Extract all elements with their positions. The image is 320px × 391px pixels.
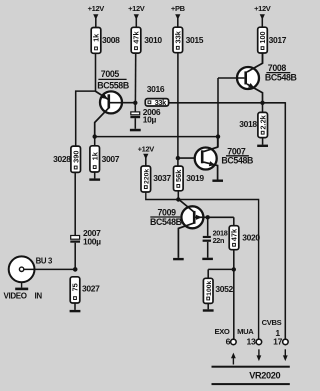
module VR2020 top line [212, 366, 290, 368]
svg-text:3010: 3010 [144, 35, 162, 45]
ground of 3018 [257, 138, 268, 147]
svg-text:220k: 220k [143, 169, 150, 184]
svg-text:+12V: +12V [138, 144, 155, 153]
svg-text:100k: 100k [206, 280, 213, 295]
svg-text:3037: 3037 [153, 173, 171, 183]
resistor 3020 (47k) [229, 226, 260, 250]
svg-text:BC548B: BC548B [221, 155, 253, 165]
ground of 7009 [173, 258, 184, 260]
svg-text:2.2k: 2.2k [258, 114, 267, 129]
wire node to 3052 [208, 269, 234, 278]
+12V supply for R3008 [88, 4, 105, 28]
svg-text:6: 6 [226, 337, 231, 347]
node 7008 emitter junction [260, 101, 264, 105]
ground of 7007 emitter [212, 180, 223, 182]
svg-text:33k: 33k [155, 98, 168, 107]
svg-text:10µ: 10µ [143, 115, 157, 125]
svg-text:BC558B: BC558B [97, 81, 129, 91]
arrow CVBS down [283, 349, 288, 361]
label VR2020 [249, 370, 280, 380]
wire 7007 base [178, 157, 201, 159]
svg-text:EXO: EXO [215, 327, 230, 336]
wire 3016 to 7008 emitter node and CVBS drop [169, 102, 286, 339]
transistor 7008 BC548B [218, 53, 297, 103]
resistor 3016 (33k) horizontal [145, 84, 168, 107]
svg-text:47k: 47k [132, 31, 141, 44]
+12V supply for R3017 [254, 4, 271, 27]
node video line junction [216, 134, 220, 138]
wire EXO line [233, 269, 235, 339]
+12V supply for R3010 [128, 4, 145, 27]
pin CVBS 1 17 [262, 318, 289, 346]
resistor 3037 (220k) [141, 166, 171, 192]
svg-text:3015: 3015 [186, 35, 204, 45]
resistor 3018 (2.2k) [239, 103, 267, 138]
resistor 3010 (47k) [131, 27, 162, 53]
svg-text:VR2020: VR2020 [249, 370, 280, 380]
pin EXO 6 [215, 327, 237, 347]
svg-text:33k: 33k [173, 30, 182, 43]
transistor 7005 BC558B [95, 69, 136, 137]
capacitor 2007 (100u) [70, 228, 101, 246]
resistor 3008 (1k) [91, 28, 120, 54]
svg-text:3020: 3020 [242, 232, 260, 242]
svg-text:MUA: MUA [237, 327, 254, 336]
arrow EXO up [231, 353, 236, 365]
svg-text:17: 17 [273, 337, 282, 347]
svg-text:47k: 47k [230, 228, 239, 241]
ground of 3052 [203, 303, 214, 311]
wire 7008 base riser [217, 78, 219, 147]
connector BU 3 video input socket [9, 256, 53, 290]
svg-text:3018: 3018 [239, 119, 257, 129]
arrow MUA down [257, 349, 262, 361]
transistor 7007 BC548B [195, 137, 253, 180]
wire 3020 to node [233, 250, 235, 270]
wire video line 7005 collector to 7008 base riser [95, 136, 218, 138]
svg-text:100: 100 [258, 31, 267, 43]
wire 3019 to 7009 base node [177, 191, 179, 200]
wire 3028 top riser to 7005 emitter [75, 91, 96, 147]
svg-text:VIDEO: VIDEO [4, 291, 27, 300]
capacitor 2018 (22n) [203, 217, 228, 257]
wire cap 2007 to input node [74, 243, 76, 270]
wire 3028 to cap 2007 [74, 172, 76, 235]
ground of 3027 [70, 303, 81, 312]
svg-text:3007: 3007 [102, 154, 120, 164]
svg-text:3016: 3016 [147, 84, 165, 94]
node 3019 bottom junction [176, 197, 180, 201]
svg-text:1k: 1k [90, 151, 99, 160]
pin MUA 13 [237, 327, 261, 347]
node input junction [73, 267, 78, 272]
label VIDEO IN [4, 291, 43, 300]
ground of 2006 [130, 129, 141, 132]
wire 3015 bottom down bias riser to 3019 [177, 53, 179, 166]
svg-text:7005: 7005 [101, 69, 120, 79]
svg-text:1k: 1k [92, 33, 101, 42]
resistor 3027 (75) [70, 277, 100, 303]
resistor 3017 (100) [258, 27, 287, 53]
svg-text:3008: 3008 [102, 35, 120, 45]
wire 3017 bottom to 7008 collector corner [262, 53, 264, 64]
svg-text:+12V: +12V [88, 4, 105, 13]
resistor 3028 (390) [53, 146, 80, 172]
svg-text:3019: 3019 [186, 173, 204, 183]
svg-text:56k: 56k [174, 169, 183, 182]
svg-text:+12V: +12V [254, 4, 271, 13]
svg-text:IN: IN [35, 291, 43, 300]
node 7007 base junction [176, 156, 180, 160]
svg-text:3027: 3027 [82, 283, 100, 293]
resistor 3007 (1k) [90, 137, 120, 172]
svg-text:13: 13 [247, 337, 256, 347]
ground of 3007 [89, 172, 100, 181]
svg-text:3028: 3028 [53, 154, 71, 164]
module VR2020 bottom line [212, 383, 290, 385]
svg-text:BC548B: BC548B [150, 217, 182, 227]
svg-text:+PB: +PB [171, 4, 186, 13]
svg-text:+12V: +12V [128, 4, 145, 13]
node 7009 emitter junction [206, 215, 210, 219]
wire 7009 emitter to 3020 [208, 217, 234, 225]
svg-text:BU 3: BU 3 [36, 257, 53, 266]
resistor 3052 (100k) [203, 278, 233, 303]
svg-text:BC548B: BC548B [265, 72, 297, 82]
wire 3008 bottom to 7005 emitter corner [95, 53, 97, 91]
resistor 3019 (56k) [174, 166, 205, 191]
ground of 2018 [202, 258, 213, 260]
+12V supply for R3037 [138, 144, 155, 166]
resistor 3015 (33k) [173, 27, 204, 53]
node 3020 3052 EXO junction [232, 267, 236, 271]
wire 3010 bottom to base node [134, 53, 136, 103]
svg-text:3017: 3017 [269, 35, 287, 45]
wire 3037 to 7009 base wire [146, 192, 259, 339]
svg-text:75: 75 [71, 283, 80, 291]
+PB supply for R3015 [171, 4, 186, 27]
node base of 7005 junction [133, 101, 137, 105]
capacitor 2006 (10u) [130, 103, 161, 129]
svg-text:CVBS: CVBS [262, 318, 282, 327]
svg-text:22n: 22n [213, 236, 225, 245]
transistor 7009 BC548B [150, 200, 208, 258]
node 7005 collector junction [93, 134, 97, 138]
wire BU3 to input node [24, 268, 75, 270]
svg-text:100µ: 100µ [83, 236, 101, 246]
svg-text:390: 390 [71, 150, 80, 162]
svg-text:3052: 3052 [215, 284, 233, 294]
